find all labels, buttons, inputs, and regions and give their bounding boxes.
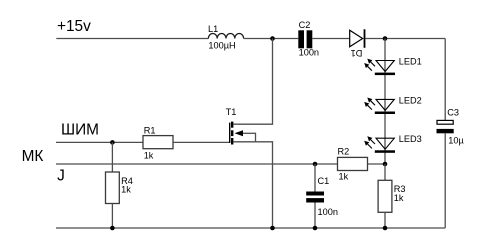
svg-text:J: J: [57, 168, 65, 185]
svg-text:T1: T1: [226, 107, 237, 117]
node junction drain/top-rail: [270, 36, 275, 41]
resistor R2: [338, 147, 368, 182]
svg-text:100n: 100n: [318, 207, 338, 217]
node junction LED chain top: [383, 36, 388, 41]
svg-text:C3: C3: [447, 108, 459, 118]
wire C3 to bottom rail: [444, 133, 446, 228]
svg-text:1k: 1k: [339, 172, 349, 182]
LED LED2: [364, 95, 422, 114]
capacitor C2: [298, 20, 319, 57]
svg-text:LED1: LED1: [399, 57, 422, 67]
wire L1 to C2: [244, 38, 299, 40]
node junction LED3/R3: [383, 162, 388, 167]
node junction R4 top: [110, 140, 115, 145]
svg-text:1k: 1k: [144, 151, 154, 161]
svg-text:1k: 1k: [394, 193, 404, 203]
svg-text:D1: D1: [351, 48, 363, 58]
node junction rail R3: [383, 226, 388, 231]
wire bottom rail: [56, 227, 445, 229]
wire R4 top stub: [111, 142, 113, 172]
diode D1: [350, 29, 366, 58]
node junction C1 top: [313, 162, 318, 167]
wire right edge down to C3: [444, 39, 446, 121]
wire top rail left: [56, 38, 208, 40]
wire SHIM line left: [56, 141, 143, 143]
resistor R4: [106, 172, 133, 204]
svg-text:LED3: LED3: [399, 134, 422, 144]
capacitor C3: [437, 108, 465, 146]
inductor L1: [208, 24, 244, 51]
wire C1 top stub: [314, 164, 316, 192]
resistor R3: [378, 180, 405, 212]
svg-text:R2: R2: [338, 147, 350, 157]
wire LED chain vertical: [384, 39, 386, 165]
svg-text:100µH: 100µH: [208, 40, 235, 50]
svg-text:1k: 1k: [121, 185, 131, 195]
wire R3 top stub: [384, 164, 386, 180]
node junction rail R4: [110, 226, 115, 231]
node junction rail source: [270, 226, 275, 231]
svg-text:L1: L1: [208, 24, 218, 34]
wire D1 to right corner: [365, 38, 445, 40]
wire C2 to D1: [312, 38, 350, 40]
svg-text:R1: R1: [144, 125, 156, 135]
svg-text:ШИМ: ШИМ: [61, 122, 99, 139]
wire R2 to node: [368, 163, 386, 165]
svg-text:100n: 100n: [299, 47, 319, 57]
wire R3 bottom stub: [384, 212, 386, 228]
wire J line: [56, 163, 338, 165]
transistor T1: [226, 107, 256, 144]
LED LED1: [364, 57, 422, 75]
svg-text:LED2: LED2: [399, 95, 422, 105]
svg-text:C2: C2: [299, 20, 311, 30]
LED LED3: [364, 134, 422, 153]
wire R1 to gate: [173, 141, 230, 143]
resistor R1: [143, 125, 173, 160]
node junction rail C1: [313, 226, 318, 231]
capacitor C1: [306, 176, 338, 217]
wire R4 bottom stub: [111, 204, 113, 229]
svg-text:C1: C1: [318, 176, 330, 186]
svg-text:10µ: 10µ: [448, 135, 464, 145]
wire T1 source: [233, 142, 273, 228]
wire C1 bottom stub: [314, 203, 316, 229]
wire T1 drain: [233, 39, 273, 125]
svg-text:МК: МК: [22, 148, 44, 165]
svg-text:+15v: +15v: [57, 18, 91, 35]
